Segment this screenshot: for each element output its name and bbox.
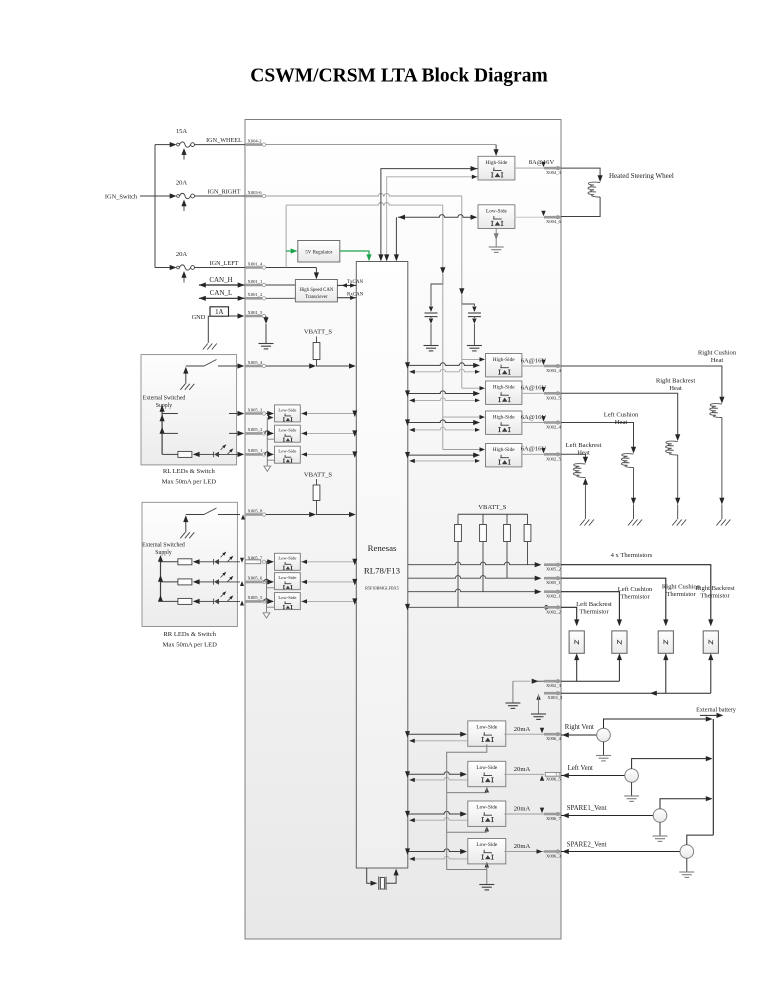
svg-text:X006_5: X006_5 (546, 776, 562, 781)
switch SW1 RL (186, 360, 245, 369)
svg-text:X005_7: X005_7 (248, 556, 264, 561)
connector X002_5 (544, 453, 562, 462)
wire X005_6 to U14 (264, 579, 274, 584)
wire MCU to low-side gate (394, 215, 478, 262)
main PCB box (245, 120, 561, 940)
connector X005_1 (245, 448, 266, 456)
wire high-side output X002_5 (522, 448, 546, 454)
svg-text:20mA: 20mA (514, 843, 531, 850)
wire IGN_LEFT (266, 267, 316, 269)
wires MCU-U7 gate/sense (405, 390, 480, 402)
svg-text:X006_4: X006_4 (546, 736, 562, 741)
svg-text:High Speed CAN: High Speed CAN (299, 288, 333, 293)
svg-text:Low-Side: Low-Side (476, 725, 498, 731)
driver U10 Low-Side (RL LED) (275, 405, 301, 422)
svg-text:Thermistor: Thermistor (666, 591, 696, 598)
wire MCU to high-side sense (384, 175, 478, 262)
driver U7 High-Side (right backrest) (486, 381, 522, 404)
svg-text:Heated Steering Wheel: Heated Steering Wheel (609, 172, 674, 180)
wire X002_3 to ground (505, 679, 544, 709)
svg-text:Low-Side: Low-Side (476, 842, 498, 848)
connector X006_7 (544, 812, 562, 821)
thermistor RT1 Left Backrest (569, 601, 612, 654)
wire MCU to high-side gate (378, 166, 478, 261)
driver U19 Low-Side (spare2 vent) (468, 839, 506, 864)
fuse F2 20A IGN_RIGHT (155, 180, 245, 212)
svg-text:5V Regulator: 5V Regulator (305, 251, 332, 256)
fuse F1 15A IGN_WHEEL (155, 128, 245, 160)
connector X005_7 (245, 556, 265, 564)
resistor R2 VBATT_S (313, 479, 320, 515)
svg-text:Right Backrest: Right Backrest (695, 585, 735, 592)
svg-text:Left Vent: Left Vent (568, 765, 593, 772)
svg-text:Left Backrest: Left Backrest (576, 601, 612, 608)
svg-text:External Switched: External Switched (143, 395, 186, 401)
ground arrow RR switch (180, 515, 194, 538)
svg-text:Heat: Heat (615, 419, 628, 426)
svg-text:Left Cushion: Left Cushion (604, 412, 639, 419)
ground arrow RL switch (180, 367, 194, 390)
resistor R3 thermistor pullup (455, 514, 462, 607)
wire U14 to MCU (301, 579, 357, 586)
wire U11 to MCU (301, 430, 357, 437)
thermistor RT2 Left Cushion (612, 586, 653, 653)
wire CAN_H to transceiver (266, 284, 295, 286)
wire U15 to MCU (301, 598, 357, 605)
svg-text:High-Side: High-Side (486, 160, 508, 166)
wire high-side output X003_4 (522, 360, 546, 366)
svg-text:RxCAN: RxCAN (347, 292, 364, 297)
wires MCU-U18 gate/sense (405, 811, 468, 823)
label 6A@16V row 2 (521, 385, 547, 392)
svg-text:Low-Side: Low-Side (486, 208, 508, 214)
svg-text:RL LEDs & Switch: RL LEDs & Switch (163, 468, 216, 475)
svg-text:CSWM/CRSM LTA Block Diagram: CSWM/CRSM LTA Block Diagram (250, 66, 547, 87)
heater HTR1 steering wheel coil (588, 182, 600, 197)
svg-text:X003-6: X003-6 (248, 190, 263, 195)
connector X001_4 (245, 261, 266, 269)
label 20mA X006_4 (514, 726, 531, 733)
svg-text:Supply: Supply (156, 403, 173, 409)
svg-text:Max 50mA per LED: Max 50mA per LED (162, 478, 217, 485)
driver U18 Low-Side (spare1 vent) (468, 801, 506, 826)
resistor R1 VBATT_S (313, 337, 320, 367)
wires MCU-U17 gate/sense (405, 771, 468, 782)
label RxCAN (347, 292, 364, 297)
wire X005_5 to U15 (264, 599, 274, 604)
svg-text:X003_5: X003_5 (546, 395, 562, 400)
wire RL row1 switch (162, 411, 244, 416)
wires MCU-U16 gate/sense (405, 731, 468, 743)
svg-text:External Switched: External Switched (142, 542, 185, 548)
svg-text:IGN_RIGHT: IGN_RIGHT (208, 188, 241, 195)
wire X005_2 to RB thermistor (561, 565, 713, 627)
wire 1A to X001_5 (229, 313, 245, 318)
svg-text:R5F10BMGLFBX5: R5F10BMGLFBX5 (365, 586, 399, 591)
wire low-side output X006_3 (504, 849, 544, 854)
svg-text:SPARE1_Vent: SPARE1_Vent (567, 805, 607, 812)
connector X001_1 (245, 279, 266, 287)
svg-text:Low-Side: Low-Side (278, 556, 296, 561)
label External Switched Supply (RL) (143, 395, 186, 409)
svg-text:IGN_LEFT: IGN_LEFT (210, 260, 239, 267)
label CAN_H (209, 276, 232, 284)
svg-text:X005_8: X005_8 (248, 508, 264, 513)
label Heated Steering Wheel (609, 172, 674, 180)
connector X002_2 (right) (544, 606, 562, 615)
wire thermistor return X002_3 (outside) (561, 653, 622, 681)
wire X005_1 to U12 (264, 452, 274, 457)
connector X002_3 (544, 680, 562, 689)
svg-text:High-Side: High-Side (493, 357, 515, 363)
wire TxCAN (337, 283, 356, 287)
LED row RR2 (X005_6) (161, 572, 245, 586)
wire thermistor row X005_1 (408, 576, 542, 581)
svg-text:X002_4: X002_4 (546, 425, 562, 430)
svg-text:20mA: 20mA (514, 806, 531, 813)
ground below low-side U5 (489, 228, 504, 252)
wire U10 to MCU (301, 411, 357, 418)
driver U8 High-Side (left cushion) (486, 411, 522, 434)
svg-text:X005_6: X005_6 (248, 576, 264, 581)
svg-text:Heat: Heat (711, 357, 724, 364)
wire thermistor row X005_2 (408, 562, 542, 567)
box RR LEDs and Switch (142, 502, 237, 626)
MCU U1 Renesas RL78/F13 box (356, 262, 408, 869)
heater HTR4 Left Cushion Heat (561, 412, 642, 526)
svg-text:Renesas: Renesas (368, 543, 397, 553)
wire CAN_L (199, 296, 245, 301)
svg-text:Left Cushion: Left Cushion (618, 586, 653, 593)
svg-text:8A@16V: 8A@16V (529, 159, 555, 166)
svg-text:X005_4: X005_4 (248, 360, 264, 365)
svg-text:SPARE2_Vent: SPARE2_Vent (567, 842, 607, 849)
LED row RR3 (X005_5) (161, 591, 245, 605)
svg-text:Right Cushion: Right Cushion (698, 350, 737, 357)
wire high-side output X004_3 (514, 162, 545, 168)
svg-text:X005_1: X005_1 (248, 448, 264, 453)
svg-text:X005_5: X005_5 (248, 595, 264, 600)
wire low-side output X006_4 (504, 728, 544, 734)
label 6A@16V row 1 (521, 357, 547, 364)
svg-text:20A: 20A (176, 251, 188, 258)
driver U9 High-Side (left backrest) (486, 444, 522, 467)
heater HTR5 Left Backrest Heat (561, 442, 602, 526)
svg-text:X005_2: X005_2 (248, 427, 264, 432)
connector X006_4 (544, 733, 562, 742)
wire X003_3 to ground (531, 694, 546, 719)
LED row RR1 (X005_7) (161, 552, 245, 565)
svg-text:X004_6: X004_6 (546, 219, 562, 224)
svg-text:VBATT_S: VBATT_S (304, 329, 333, 336)
wire X005_8 to MCU (266, 512, 356, 517)
svg-text:Right Backrest: Right Backrest (656, 378, 696, 385)
junction arrow bus A (440, 267, 445, 274)
wire high-side output X003_5 (522, 387, 546, 393)
svg-text:X002_5: X002_5 (546, 456, 562, 461)
wire low-side output X006_7 (504, 808, 544, 814)
capacitor C1 with ground (424, 274, 443, 351)
svg-text:VBATT_S: VBATT_S (304, 471, 333, 478)
svg-text:Low-Side: Low-Side (278, 575, 296, 580)
svg-text:TxCAN: TxCAN (347, 280, 364, 285)
resistor R5 thermistor pullup (504, 514, 511, 578)
wires MCU-U19 gate/sense (405, 848, 468, 861)
wire IGN_LEFT riser to rail A (286, 203, 443, 269)
svg-text:Max 50mA per LED: Max 50mA per LED (163, 642, 218, 649)
connector X006_5 (545, 772, 561, 781)
svg-text:X004_3: X004_3 (546, 170, 562, 175)
wire IGN_Switch to fuse bus (140, 195, 155, 197)
wire U13 to MCU (301, 559, 357, 566)
svg-text:Low-Side: Low-Side (278, 595, 296, 600)
wire thermistor row X002_1 (408, 589, 542, 594)
junction arrow bus B (459, 288, 464, 295)
svg-text:X002_2: X002_2 (546, 609, 562, 614)
svg-text:X006_3: X006_3 (546, 854, 562, 859)
heater HTR2 Right Cushion Heat (561, 350, 737, 526)
wire GND to ground (203, 316, 217, 349)
connector X001_5 (245, 310, 266, 318)
connector X005_5 (245, 595, 266, 603)
svg-text:VBATT_S: VBATT_S (478, 504, 507, 511)
title (250, 66, 547, 87)
driver U4 High-Side (steering wheel) (478, 156, 515, 180)
connector X005_4 (245, 360, 266, 368)
svg-text:Thermistor: Thermistor (620, 594, 650, 601)
VBATT_S rail (458, 513, 528, 515)
thermistor RT3 Right Cushion (658, 584, 701, 654)
vent driver ground bus (447, 744, 495, 890)
label External Switched Supply (RR) (142, 542, 185, 556)
label RL LEDs and Switch (162, 468, 217, 485)
svg-text:X005_1: X005_1 (546, 580, 562, 585)
svg-text:X002_3: X002_3 (546, 683, 562, 688)
wire CAN transceiver supply (314, 268, 319, 280)
svg-text:High-Side: High-Side (493, 447, 515, 453)
wire 5V regulator input (green) (286, 248, 297, 253)
svg-text:Left Backrest: Left Backrest (566, 442, 602, 449)
label IGN_Switch (105, 193, 138, 200)
supply bus B to HS1/HS2 (462, 295, 485, 390)
wire RxCAN (337, 296, 356, 300)
driver U5 Low-Side (steering wheel) (478, 205, 515, 229)
svg-text:RR LEDs & Switch: RR LEDs & Switch (163, 631, 216, 638)
label VBATT_S (2) (304, 471, 333, 478)
connector X004_3 (544, 166, 562, 175)
connector X005_2 (right) (544, 563, 562, 572)
driver U16 Low-Side (right vent) (468, 721, 506, 746)
wire high-side output X002_4 (522, 416, 546, 422)
connector X003-6 (245, 190, 266, 198)
wire thermistor row X002_2 (405, 604, 552, 611)
connector X004-2 (245, 138, 266, 146)
wire X002_1 to LC thermistor (561, 592, 622, 627)
wire IGN_WHEEL rail (266, 145, 499, 156)
wire low-side output X004_6 (514, 211, 545, 217)
crystal Y1 (367, 868, 399, 890)
svg-text:CAN_H: CAN_H (209, 276, 232, 284)
LED driver ground bus RL (264, 415, 275, 471)
wire heated steering wheel return (561, 197, 600, 217)
label 20mA X006_5 (514, 766, 531, 773)
wire CAN_H (199, 282, 245, 287)
vent motor M1 Right Vent (561, 716, 713, 761)
driver U17 Low-Side (left vent) (468, 761, 506, 786)
label 20mA X006_7 (514, 806, 531, 813)
connector X003_3 (544, 692, 563, 701)
driver U14 Low-Side (RR LED) (275, 573, 301, 590)
connector X005_2 (245, 427, 266, 435)
wire X005_3 to U10 (266, 411, 274, 416)
connector X002_1 (right) (544, 590, 562, 599)
label 6A@16V row 4 (521, 446, 547, 453)
wire X001_5 to ground (259, 316, 274, 349)
label 8A@16V (529, 159, 555, 166)
wires MCU-U9 gate/sense (405, 452, 480, 463)
supply bus RR (158, 555, 163, 602)
resistor R4 thermistor pullup (480, 514, 487, 592)
label RR LEDs and Switch (163, 631, 218, 648)
svg-text:Heat: Heat (669, 385, 682, 392)
svg-text:CAN_L: CAN_L (210, 289, 233, 297)
connector X005_3 (245, 407, 266, 415)
external battery feed arrow (700, 713, 723, 718)
wires MCU-U8 gate/sense (405, 419, 480, 432)
label VBATT_S (3) (478, 504, 507, 511)
connector X002_4 (544, 421, 562, 430)
svg-text:1A: 1A (215, 309, 223, 316)
svg-text:X001_2: X001_2 (248, 292, 264, 297)
svg-text:IGN_Switch: IGN_Switch (105, 193, 138, 200)
LED row RL (X005_1) (162, 444, 244, 457)
connector X005_1 (right) (544, 577, 562, 586)
svg-text:X005_2: X005_2 (546, 567, 562, 572)
switch SW2 RR (186, 508, 245, 520)
supply bus RL (160, 405, 165, 454)
svg-text:4 x Thermistors: 4 x Thermistors (611, 552, 653, 559)
external battery bus (712, 719, 714, 835)
driver U15 Low-Side (RR LED) (275, 593, 301, 610)
heater HTR3 Right Backrest Heat (561, 378, 695, 526)
svg-text:X002_1: X002_1 (546, 594, 562, 599)
label External battery (696, 707, 737, 714)
wires MCU-U6 gate/sense (405, 362, 480, 374)
wire U12 to MCU (301, 451, 357, 458)
svg-text:Thermistor: Thermistor (700, 593, 730, 600)
label TxCAN (347, 280, 364, 285)
svg-text:IGN_WHEEL: IGN_WHEEL (206, 137, 242, 144)
connector X003_4 (544, 364, 562, 373)
capacitor C2 with ground (462, 295, 482, 351)
wire CAN_L to transceiver (266, 297, 295, 299)
connector X003_5 (544, 392, 562, 401)
ignition fuse bus (154, 145, 156, 268)
transceiver U3 High Speed CAN (295, 280, 337, 302)
svg-text:RL78/F13: RL78/F13 (364, 566, 401, 576)
svg-text:X004-2: X004-2 (248, 138, 263, 143)
wire X005_7 to U13 (266, 559, 274, 564)
svg-text:X003_3: X003_3 (548, 695, 564, 700)
regulator U2 5V Regulator (298, 241, 340, 263)
label 6A@16V row 3 (521, 414, 547, 421)
svg-text:Thermistor: Thermistor (579, 608, 609, 615)
wire to heated steering wheel (561, 168, 603, 182)
svg-text:20mA: 20mA (514, 726, 531, 733)
label CAN_L (210, 289, 233, 297)
connector X004_6 (544, 216, 562, 225)
driver U12 Low-Side (RL LED) (275, 446, 301, 463)
wire X005_2 to U11 (264, 431, 274, 436)
svg-text:Right Vent: Right Vent (565, 724, 594, 731)
svg-text:External battery: External battery (696, 707, 737, 714)
fuse F4 1A box (210, 307, 229, 316)
wire 5V regulator output (green) (340, 251, 372, 261)
svg-text:Low-Side: Low-Side (476, 765, 498, 771)
LED driver ground bus RR (263, 562, 274, 618)
svg-text:X003_4: X003_4 (546, 368, 562, 373)
fuse F3 20A IGN_LEFT (155, 251, 245, 283)
svg-text:Supply: Supply (155, 550, 172, 556)
vent motor M4 SPARE2 Vent (561, 835, 713, 877)
svg-text:High-Side: High-Side (493, 385, 515, 391)
svg-text:Transciever: Transciever (305, 295, 328, 300)
vent motor M3 SPARE1 Vent (561, 796, 713, 841)
svg-text:20A: 20A (176, 180, 188, 187)
connector X001_2 (245, 292, 266, 300)
svg-text:Low-Side: Low-Side (278, 428, 296, 433)
wire X002_2 to LB thermistor (561, 607, 579, 626)
svg-text:Heat: Heat (577, 450, 590, 457)
connector X006_3 (544, 850, 562, 859)
driver U6 High-Side (right cushion) (486, 354, 522, 377)
driver U13 Low-Side (RR LED) (275, 553, 301, 570)
wire RL row2 switch (162, 431, 244, 436)
svg-text:X006_7: X006_7 (546, 816, 562, 821)
connector X005_6 (245, 576, 266, 584)
svg-text:Low-Side: Low-Side (278, 407, 296, 412)
label 4 x Thermistors (611, 552, 653, 559)
svg-text:X001_4: X001_4 (248, 261, 264, 266)
wire thermistor return X003_3 (outside) (561, 653, 713, 696)
svg-text:X001_1: X001_1 (248, 279, 264, 284)
wire X005_1 to RC thermistor (561, 578, 668, 626)
wire IGN_RIGHT rail to bus B (266, 193, 462, 289)
vent motor M2 Left Vent (561, 756, 713, 801)
svg-text:20mA: 20mA (514, 766, 531, 773)
svg-text:15A: 15A (176, 128, 188, 135)
label GND (192, 314, 206, 321)
supply bus A to HS3/HS4 (443, 274, 485, 452)
resistor R6 thermistor pullup (524, 514, 531, 565)
connector X005_8 (245, 508, 266, 516)
svg-text:X005_3: X005_3 (248, 407, 264, 412)
svg-text:Low-Side: Low-Side (476, 805, 498, 811)
wire low-side output X006_5 (504, 774, 544, 780)
box RL LEDs and Switch (141, 355, 237, 465)
label VBATT_S (1) (304, 329, 333, 336)
thermistor RT4 Right Backrest (695, 585, 735, 653)
wire X005_4 to MCU (266, 363, 356, 368)
svg-text:X001_5: X001_5 (248, 310, 264, 315)
svg-text:Low-Side: Low-Side (278, 449, 296, 454)
driver U11 Low-Side (RL LED) (275, 425, 301, 442)
label 20mA X006_3 (514, 843, 531, 850)
svg-text:High-Side: High-Side (493, 415, 515, 421)
svg-text:GND: GND (192, 314, 206, 321)
